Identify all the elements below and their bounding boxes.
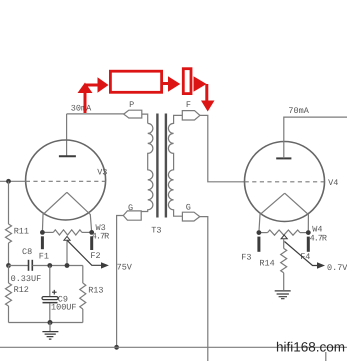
wire: right G down past bottom rail bbox=[200, 217, 208, 361]
svg-text:R11: R11 bbox=[14, 227, 29, 237]
V4 plate bar bbox=[276, 157, 291, 159]
node: G rail meets bottom rail dot bbox=[114, 345, 119, 350]
T3 secondary winding bbox=[168, 115, 182, 216]
ground (right) bbox=[275, 291, 291, 299]
W4 wiper arrow bbox=[281, 235, 287, 239]
resistor R14 bbox=[283, 239, 285, 249]
V3 filament left leg bbox=[42, 192, 67, 232]
V3 grid (dashed) bbox=[26, 180, 106, 182]
node: W4 left end dot bbox=[257, 230, 262, 235]
wire: left G down to bottom rail bbox=[117, 216, 124, 348]
resistor R13 bbox=[82, 266, 84, 284]
capacitor C8 bbox=[9, 265, 29, 267]
svg-text:F1: F1 bbox=[39, 251, 49, 261]
node: ground junction dot bbox=[48, 320, 53, 325]
svg-text:100UF: 100UF bbox=[51, 302, 77, 312]
svg-text:P: P bbox=[129, 100, 134, 110]
W3 wiper arrow bbox=[64, 236, 70, 240]
0.7V test-point arrow bbox=[285, 242, 318, 266]
wire: bottom tie R12-C9-R13 bbox=[9, 322, 83, 324]
node: V3 grid junction dot bbox=[6, 179, 11, 184]
svg-text:F3: F3 bbox=[241, 252, 251, 262]
node: W3 left end dot bbox=[40, 230, 45, 235]
pin F2 bar bbox=[90, 236, 93, 250]
wire: bottom rail bbox=[0, 346, 347, 348]
svg-text:T3: T3 bbox=[151, 225, 161, 235]
svg-text:C8: C8 bbox=[22, 247, 32, 257]
svg-text:R13: R13 bbox=[88, 285, 103, 295]
ground (left) bbox=[49, 323, 51, 332]
T3 secondary G connector bbox=[182, 212, 199, 221]
svg-text:R12: R12 bbox=[14, 285, 29, 295]
V3 plate bar bbox=[59, 155, 76, 157]
tube V4 envelope bbox=[245, 142, 325, 222]
node: C9 top dot bbox=[47, 263, 52, 268]
svg-text:V3: V3 bbox=[97, 168, 107, 178]
tube V3 envelope bbox=[26, 140, 106, 220]
svg-text:F2: F2 bbox=[90, 251, 100, 261]
node: wiper feed dot bbox=[65, 263, 70, 268]
T3 secondary connector F bbox=[182, 111, 200, 120]
wire: top rail from V3 plate to transformer P bbox=[67, 113, 124, 115]
svg-text:V4: V4 bbox=[328, 178, 338, 188]
svg-text:hifi168.com: hifi168.com bbox=[276, 340, 345, 355]
red annotation: arrow right then down to F bbox=[194, 76, 207, 92]
resistor R12 bbox=[8, 266, 10, 284]
red annotation: box 2 (narrow vertical) bbox=[183, 69, 191, 94]
svg-text:75V: 75V bbox=[117, 263, 133, 273]
svg-text:0.7V: 0.7V bbox=[327, 263, 347, 273]
75V test-point arrow bbox=[67, 240, 102, 265]
pin F4 bar bbox=[307, 237, 310, 252]
red annotation: arrow to box 1 bbox=[86, 84, 98, 87]
wire: V3 grid lead from left edge bbox=[0, 180, 26, 182]
wire: V3 plate riser bbox=[66, 114, 68, 156]
T3 primary G connector bbox=[123, 211, 141, 220]
svg-text:4.7R: 4.7R bbox=[92, 232, 109, 242]
red annotation: arrow to box 2 bbox=[163, 82, 169, 85]
svg-text:G: G bbox=[128, 203, 133, 213]
red annotation: box 1 (wide) bbox=[110, 71, 161, 92]
svg-text:30mA: 30mA bbox=[71, 104, 92, 114]
svg-text:F: F bbox=[186, 100, 191, 110]
wire: P to primary winding bbox=[142, 114, 148, 123]
node: W4 right end dot bbox=[306, 230, 311, 235]
T3 primary winding bbox=[141, 123, 153, 211]
wire: bottom-right stub bbox=[325, 352, 327, 361]
red annotation: up arrow at 30mA bbox=[84, 93, 87, 114]
svg-text:0.33UF: 0.33UF bbox=[11, 274, 42, 284]
node: W3 right end dot bbox=[89, 230, 94, 235]
pin F1 bar bbox=[41, 236, 44, 249]
resistor R11 bbox=[8, 181, 10, 224]
V4 filament left leg bbox=[259, 193, 285, 232]
svg-text:G: G bbox=[186, 202, 191, 212]
capacitor C9 (electrolytic) bbox=[49, 266, 51, 297]
wire: W3 wiper down to node bbox=[66, 240, 68, 265]
pin F3 bar bbox=[257, 237, 260, 252]
wire: F to V4 grid bbox=[200, 115, 245, 181]
wire: V4 plate riser and top rail bbox=[284, 117, 347, 158]
svg-text:4.7R: 4.7R bbox=[310, 234, 327, 244]
svg-text:70mA: 70mA bbox=[288, 106, 309, 116]
V4 grid (dashed) bbox=[245, 181, 325, 183]
potentiometer W4 4.7R body bbox=[259, 232, 268, 234]
potentiometer W3 4.7R body bbox=[42, 231, 53, 233]
T3 core bbox=[157, 114, 166, 218]
transformer T3 primary connector P bbox=[124, 110, 142, 118]
svg-text:R14: R14 bbox=[259, 259, 274, 269]
node: C8 left junction dot bbox=[6, 263, 11, 268]
V3 filament right leg bbox=[67, 192, 92, 232]
wire: node row y=265.5 bbox=[32, 265, 83, 267]
V4 filament right leg bbox=[285, 193, 309, 232]
